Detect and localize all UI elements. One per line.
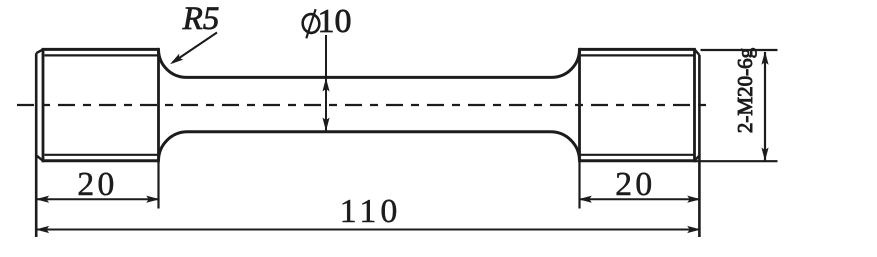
dimension line 20 right (580, 198, 700, 200)
arrow 20-left right (146, 196, 160, 203)
left chamfer top (36, 49, 43, 53)
R5 leader line (173, 33, 218, 63)
left grip major bottom line (42, 159, 159, 162)
gauge top line (187, 76, 552, 79)
dimension line 20 left (37, 198, 159, 200)
left grip thread root bottom (45, 154, 159, 156)
centerline (dash-dot axis) (17, 104, 714, 106)
right end face (698, 55, 701, 237)
left chamfer bottom (36, 155, 43, 161)
left grip thread root top (45, 54, 159, 56)
arrow 20-left left (36, 196, 50, 203)
arrow phi10 down (322, 118, 329, 132)
right grip major top line (580, 48, 696, 51)
fillet bottom-left (159, 132, 188, 161)
arrow 110 left (36, 226, 50, 233)
gauge bottom line (188, 130, 551, 133)
right grip major bottom line (580, 159, 696, 162)
extension line below right shoulder (578, 162, 580, 209)
svg-text:2-M20-6g: 2-M20-6g (733, 47, 757, 133)
right chamfer top (695, 49, 700, 55)
fillet top-right (552, 49, 580, 77)
fillet top-left R5 (159, 49, 187, 77)
right grip thread root top (581, 54, 695, 56)
arrowheads (36, 51, 769, 233)
right chamfer bottom (695, 156, 700, 161)
svg-text:20: 20 (615, 166, 655, 203)
left shoulder edge (157, 48, 160, 162)
arrow 20-right left (578, 196, 592, 203)
arrow R5 leader (168, 54, 183, 68)
left end face (35, 53, 38, 237)
svg-text:R5: R5 (182, 1, 220, 37)
arrow 20-right right (687, 196, 701, 203)
svg-text:10: 10 (318, 3, 352, 40)
fillet bottom-right (551, 132, 580, 161)
svg-text:110: 110 (340, 193, 402, 230)
label phi symbol (301, 9, 320, 38)
left grip left edge (42, 48, 45, 162)
right shoulder edge (578, 48, 581, 162)
arrow 110 right (687, 226, 701, 233)
M20 extension bottom (695, 160, 778, 162)
arrow M20 bottom (761, 148, 768, 162)
extension line below left shoulder (157, 162, 159, 209)
right grip inner edge (693, 48, 696, 162)
dimension line 110 (37, 229, 700, 231)
arrow M20 top (761, 51, 768, 64)
left grip major top line (42, 48, 159, 51)
M20 extension top (701, 49, 778, 51)
phi10 dimension line (325, 35, 327, 131)
arrow phi10 up (322, 78, 329, 92)
svg-text:20: 20 (77, 166, 117, 203)
right grip thread root bottom (581, 154, 695, 156)
M20 dimension line (764, 52, 766, 161)
